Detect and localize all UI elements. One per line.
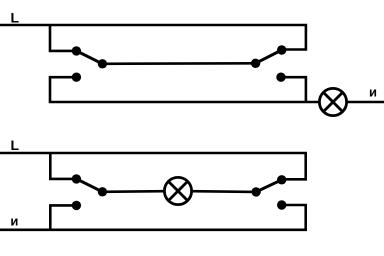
svg-text:и: и (369, 85, 377, 100)
svg-text:L: L (11, 137, 20, 153)
svg-text:и: и (10, 213, 18, 228)
svg-text:L: L (11, 10, 20, 26)
